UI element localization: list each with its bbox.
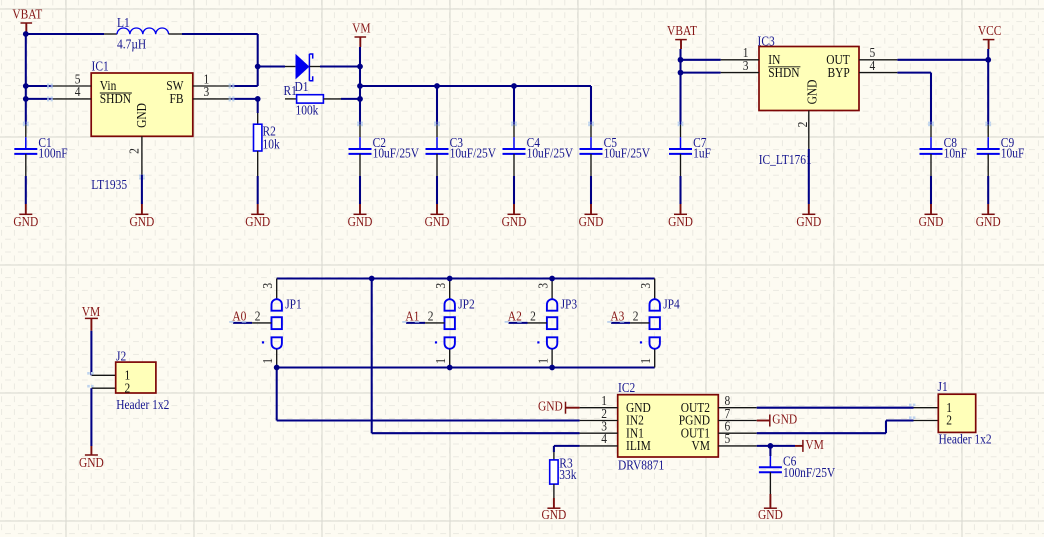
svg-text:4: 4 bbox=[75, 84, 81, 99]
svg-text:IC1: IC1 bbox=[92, 59, 109, 74]
svg-text:VBAT: VBAT bbox=[667, 23, 697, 38]
svg-text:10nF: 10nF bbox=[944, 146, 968, 161]
svg-text:GND: GND bbox=[134, 103, 149, 128]
svg-text:2: 2 bbox=[530, 309, 536, 324]
svg-text:2: 2 bbox=[795, 122, 810, 128]
svg-text:IC3: IC3 bbox=[758, 34, 775, 49]
svg-text:VBAT: VBAT bbox=[12, 7, 42, 22]
svg-text:4: 4 bbox=[870, 58, 876, 73]
svg-text:JP4: JP4 bbox=[663, 297, 680, 312]
svg-text:L1: L1 bbox=[117, 15, 130, 30]
svg-text:1: 1 bbox=[536, 358, 551, 364]
svg-text:5: 5 bbox=[725, 431, 731, 446]
svg-text:1: 1 bbox=[260, 358, 275, 364]
svg-text:BYP: BYP bbox=[828, 65, 850, 80]
svg-text:ILIM: ILIM bbox=[626, 438, 651, 453]
svg-text:33k: 33k bbox=[559, 467, 577, 482]
svg-text:IC2: IC2 bbox=[618, 380, 635, 395]
svg-text:2: 2 bbox=[633, 309, 639, 324]
svg-text:2: 2 bbox=[127, 148, 142, 154]
svg-text:GND: GND bbox=[13, 214, 38, 229]
svg-text:3: 3 bbox=[433, 283, 448, 289]
svg-text:10uF/25V: 10uF/25V bbox=[604, 146, 650, 161]
svg-text:100nF/25V: 100nF/25V bbox=[783, 465, 835, 480]
svg-text:GND: GND bbox=[502, 214, 527, 229]
svg-text:J1: J1 bbox=[938, 379, 948, 394]
svg-text:JP2: JP2 bbox=[458, 297, 475, 312]
svg-text:VCC: VCC bbox=[978, 23, 1002, 38]
svg-text:100nF: 100nF bbox=[38, 146, 67, 161]
svg-text:VM: VM bbox=[805, 437, 823, 452]
svg-text:GND: GND bbox=[976, 214, 1001, 229]
svg-text:10uF/25V: 10uF/25V bbox=[527, 146, 573, 161]
svg-text:JP1: JP1 bbox=[285, 297, 302, 312]
svg-text:3: 3 bbox=[204, 84, 210, 99]
svg-text:SHDN: SHDN bbox=[768, 65, 799, 80]
svg-text:GND: GND bbox=[772, 412, 797, 427]
svg-text:GND: GND bbox=[579, 214, 604, 229]
svg-text:GND: GND bbox=[348, 214, 373, 229]
svg-text:3: 3 bbox=[260, 283, 275, 289]
svg-text:GND: GND bbox=[425, 214, 450, 229]
svg-text:GND: GND bbox=[129, 214, 154, 229]
svg-text:GND: GND bbox=[668, 214, 693, 229]
svg-text:3: 3 bbox=[536, 283, 551, 289]
svg-text:100k: 100k bbox=[296, 103, 320, 118]
svg-text:2: 2 bbox=[125, 381, 131, 396]
svg-text:IC_LT1761: IC_LT1761 bbox=[759, 152, 812, 167]
svg-text:GND: GND bbox=[796, 214, 821, 229]
svg-text:2: 2 bbox=[255, 309, 261, 324]
svg-text:GND: GND bbox=[245, 214, 270, 229]
svg-text:4.7µH: 4.7µH bbox=[117, 37, 146, 52]
svg-text:Header 1x2: Header 1x2 bbox=[939, 432, 992, 447]
svg-text:1: 1 bbox=[638, 358, 653, 364]
svg-text:JP3: JP3 bbox=[561, 297, 578, 312]
svg-text:GND: GND bbox=[79, 455, 104, 470]
svg-text:GND: GND bbox=[805, 80, 820, 105]
svg-text:DRV8871: DRV8871 bbox=[618, 458, 664, 473]
svg-text:GND: GND bbox=[919, 214, 944, 229]
svg-text:2: 2 bbox=[946, 413, 952, 428]
svg-text:10uF: 10uF bbox=[1001, 146, 1025, 161]
svg-text:10uF/25V: 10uF/25V bbox=[450, 146, 496, 161]
svg-text:VM: VM bbox=[82, 304, 100, 319]
svg-text:SHDN: SHDN bbox=[100, 91, 131, 106]
svg-text:GND: GND bbox=[538, 399, 563, 414]
svg-text:R1: R1 bbox=[284, 83, 297, 98]
svg-text:3: 3 bbox=[743, 58, 749, 73]
svg-text:FB: FB bbox=[169, 91, 183, 106]
svg-text:1uF: 1uF bbox=[693, 146, 711, 161]
svg-text:3: 3 bbox=[638, 283, 653, 289]
svg-text:VM: VM bbox=[692, 438, 710, 453]
svg-text:J2: J2 bbox=[116, 349, 126, 364]
svg-text:VM: VM bbox=[352, 21, 370, 36]
svg-text:4: 4 bbox=[601, 431, 607, 446]
svg-text:10k: 10k bbox=[263, 137, 281, 152]
svg-text:LT1935: LT1935 bbox=[91, 177, 127, 192]
svg-text:10uF/25V: 10uF/25V bbox=[373, 146, 419, 161]
svg-text:2: 2 bbox=[428, 309, 434, 324]
svg-text:GND: GND bbox=[758, 507, 783, 522]
svg-text:GND: GND bbox=[541, 507, 566, 522]
svg-text:1: 1 bbox=[433, 358, 448, 364]
svg-text:Header 1x2: Header 1x2 bbox=[116, 397, 169, 412]
